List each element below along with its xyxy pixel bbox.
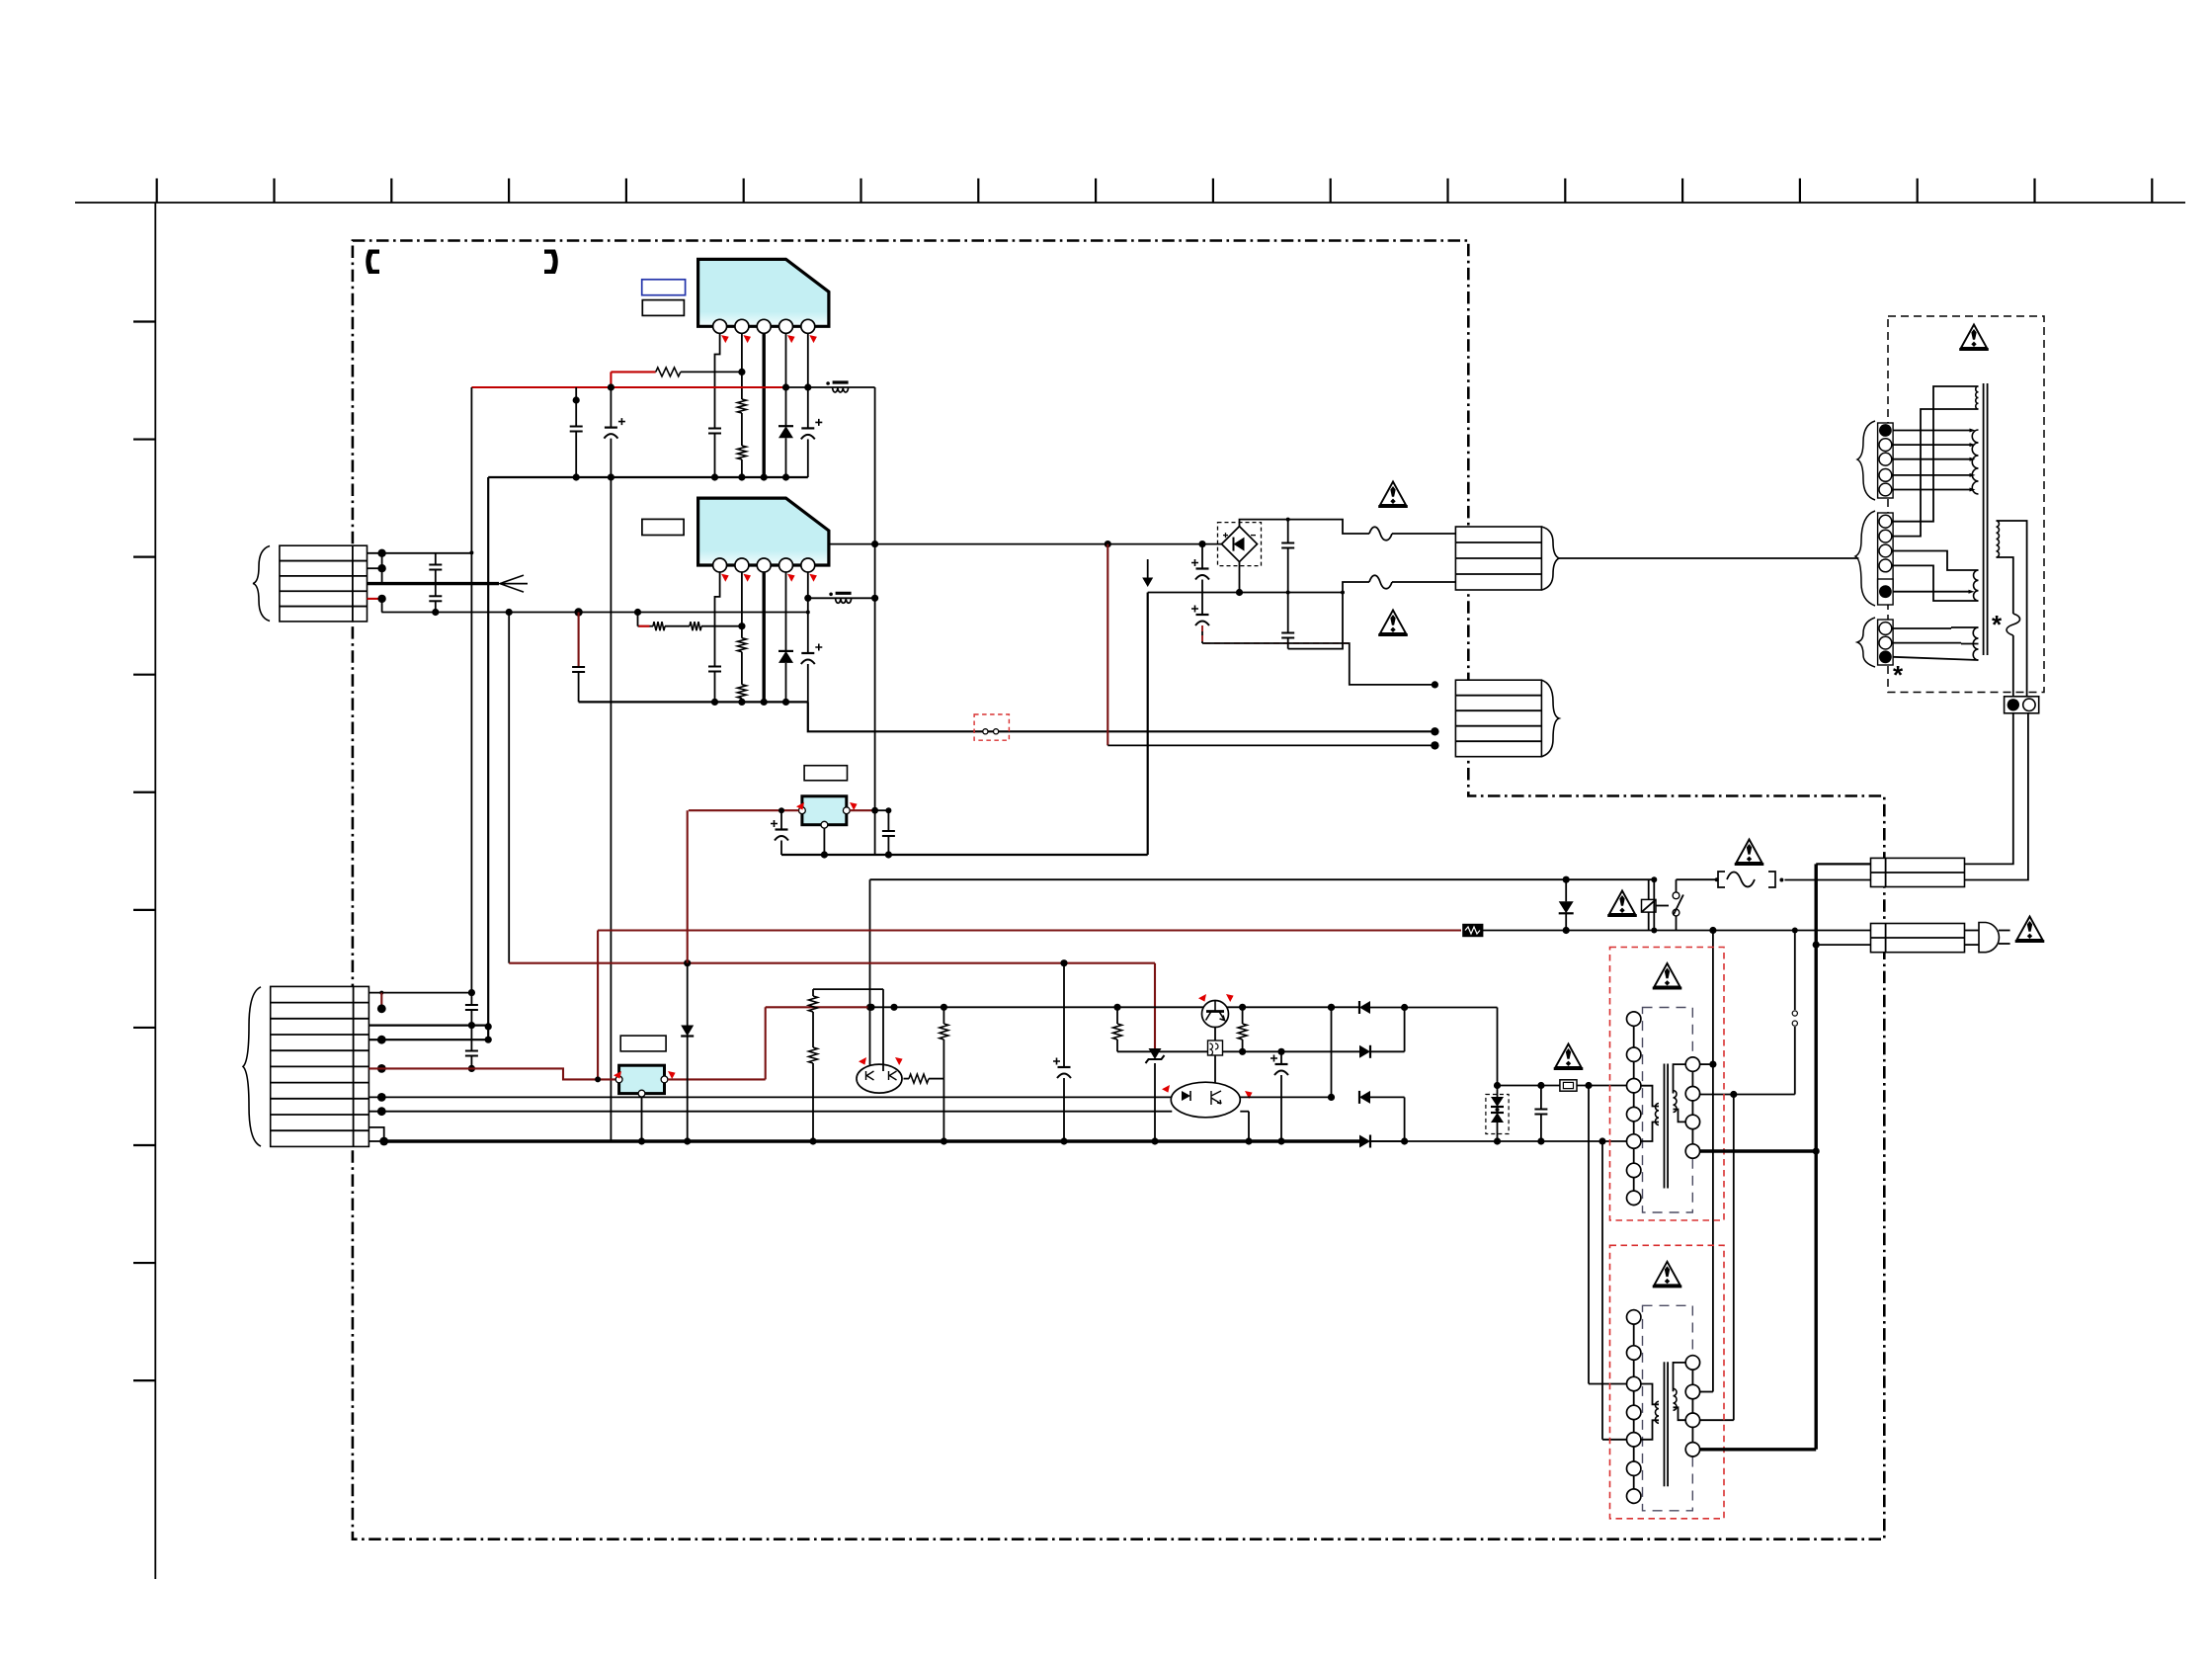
CN2 row4 wire thick bbox=[369, 1039, 488, 1040]
wire IC2 pin4 down bbox=[785, 572, 787, 651]
rail IC2 to bead bbox=[808, 597, 875, 599]
capacitor C8 bbox=[465, 1004, 478, 1006]
wire gnd to T1 pin5 bbox=[1369, 1140, 1627, 1142]
winding W5 mains bbox=[1997, 521, 2000, 557]
arrow signal left bbox=[500, 575, 524, 592]
wire arrow down marker bbox=[1147, 559, 1149, 579]
wire IC1 pin5 down bbox=[807, 333, 809, 428]
wire opto collector bbox=[1240, 1096, 1331, 1098]
wire W2 maroon bbox=[1106, 544, 1108, 746]
wire C5 to bus2 bbox=[714, 672, 716, 703]
bridge rectifier dashed box bbox=[1218, 523, 1262, 566]
wire rect out bbox=[1497, 1008, 1499, 1086]
resistor R2b bbox=[737, 446, 746, 459]
dual diode DD1 bbox=[1486, 1095, 1509, 1134]
rail PSU bbox=[766, 1006, 871, 1008]
resistor R5 bbox=[1242, 1007, 1244, 1024]
diode D6 bbox=[1359, 1045, 1370, 1058]
wire fuse to cordA bbox=[1784, 879, 1870, 881]
ground bus IC2 bbox=[579, 701, 808, 703]
wire T1 pin2 out bbox=[1699, 1093, 1701, 1096]
wire IC2 pin3 ground bbox=[763, 572, 766, 702]
connector TP plug bbox=[2005, 697, 2039, 713]
capacitor C16 electrolytic bbox=[780, 810, 782, 829]
bracket label left bbox=[366, 250, 379, 275]
resistor R3 bbox=[942, 1007, 944, 1024]
ground bus IC1 bbox=[488, 476, 808, 478]
optocoupler PC1 bbox=[1171, 1082, 1240, 1118]
transformer box dashed bbox=[1888, 316, 2044, 693]
maroon riser x605 bbox=[597, 931, 599, 1080]
capacitor C9 bbox=[465, 1050, 478, 1052]
inductor L1 bbox=[1214, 1028, 1216, 1041]
wire opto emitter bbox=[1240, 1111, 1249, 1113]
transformer T2 switching bbox=[1610, 1245, 1725, 1519]
thermal fuse TF bbox=[2007, 614, 2020, 635]
cord bushing B bbox=[1871, 924, 1965, 953]
resistor R7 bbox=[809, 1047, 818, 1063]
winding W3 bbox=[1974, 570, 1979, 601]
fusible resistor FR2 bbox=[1560, 1080, 1577, 1091]
wire IC1 pin2 down bbox=[741, 333, 743, 399]
resistor R2c bbox=[737, 638, 746, 652]
fusible resistor FR1 bbox=[598, 929, 1461, 931]
connector CN1 speaker bbox=[280, 545, 368, 622]
ruler vertical line bbox=[154, 203, 156, 1579]
IC3 ground lead bbox=[823, 828, 825, 855]
wire x1161 down thick bbox=[1147, 593, 1149, 856]
wire C1 to bus bbox=[714, 434, 716, 478]
wire D5-D7 join bbox=[1328, 1004, 1335, 1011]
wire maroon drop to C7 bbox=[578, 613, 580, 668]
connector TC3 bbox=[1878, 620, 1894, 665]
resistor R2a bbox=[737, 399, 746, 413]
CN1 pin3 wire thick bbox=[368, 582, 500, 585]
capacitor C14 electrolytic bbox=[1196, 614, 1209, 616]
wire vertical x885 bbox=[874, 387, 876, 855]
capacitor C17 bbox=[887, 810, 889, 831]
wire IC1 pin4 down bbox=[785, 333, 787, 426]
relay coil bbox=[1642, 899, 1657, 912]
mains line thick bbox=[1814, 864, 1817, 1449]
capacitor C15 chain bbox=[1063, 963, 1065, 1067]
label box IC1 black bbox=[642, 300, 684, 316]
wire T1 pin4 thick bbox=[1700, 1149, 1817, 1152]
wire FR2 to T1 bbox=[1577, 1085, 1627, 1087]
bracket label right bbox=[544, 250, 558, 275]
wire vertical x477 bbox=[470, 387, 472, 1005]
diode D5 bbox=[1359, 1001, 1370, 1014]
wire riser x618 red bbox=[610, 372, 612, 387]
wire Q1 right link bbox=[909, 1074, 929, 1083]
resistor R1f bbox=[656, 368, 681, 376]
diode D2 bbox=[778, 650, 793, 652]
TC2 pins bbox=[1879, 515, 1892, 528]
bridge rectifier D100 bbox=[1222, 527, 1258, 562]
capacitor C4 electrolytic on x618 bbox=[605, 427, 617, 429]
label box IC2 bbox=[642, 519, 684, 535]
wire R2d to bus2 bbox=[741, 699, 743, 703]
wire R2a to R2b bbox=[741, 413, 743, 446]
wire D7-D8 join bbox=[1404, 1097, 1406, 1141]
winding W4 bbox=[1973, 627, 1978, 660]
regulator IC4 bbox=[619, 1065, 665, 1093]
wire IC2 pin1 to C5 bbox=[715, 572, 720, 667]
wire bridge bottom bbox=[1239, 562, 1241, 593]
ground bus GNDP bbox=[379, 1137, 388, 1146]
ac plug bbox=[1979, 923, 1999, 953]
wire cordA to mains bbox=[1816, 863, 1870, 865]
CN2 row3 wire thick bbox=[369, 1024, 488, 1026]
wire fuse2 to CN3 bbox=[1392, 581, 1455, 583]
ruler left tick marks bbox=[133, 320, 155, 322]
wire C2 to bus bbox=[807, 439, 809, 477]
maroon2 wire bbox=[509, 962, 1155, 964]
wire T2 pin4 thick bbox=[1700, 1448, 1817, 1451]
wire W3 top lead bbox=[1893, 551, 1979, 571]
wire D5-D6 join bbox=[1404, 1008, 1406, 1052]
diode D4 chain bbox=[687, 810, 689, 963]
wire bridge top bbox=[1240, 520, 1370, 534]
ferrite bead FB2 bbox=[836, 598, 852, 603]
wire drive to T2 bbox=[1588, 1086, 1590, 1384]
transistor Q1 dual bbox=[857, 1064, 902, 1093]
CN2 row6 wire bbox=[377, 1093, 386, 1102]
wire jog feed bbox=[637, 613, 639, 626]
brace TC3 bbox=[1857, 618, 1875, 667]
wire switch to fuse bbox=[1677, 878, 1717, 880]
connector CN2 bbox=[271, 986, 369, 1146]
capacitor C11 bbox=[429, 595, 442, 597]
CN1 pin1 wire bbox=[368, 552, 472, 554]
capacitor C13 electrolytic bbox=[1201, 544, 1203, 569]
warning triangle bridge lower bbox=[1380, 611, 1406, 634]
resistor R2f bbox=[690, 622, 701, 630]
wire Q1 bias bbox=[813, 988, 883, 990]
ground return thick bbox=[781, 854, 1148, 856]
CN2 row1 wire bbox=[369, 992, 471, 994]
transformer core bbox=[1983, 383, 1985, 655]
wire drive node bbox=[1498, 1085, 1560, 1087]
wire T2 pin2 feed bbox=[1733, 1095, 1735, 1421]
wire between feed resistors bbox=[665, 625, 690, 627]
wire vertical x515 bbox=[508, 613, 510, 963]
wire lower to fuse2 bbox=[1148, 582, 1369, 593]
brace CN3 bbox=[1541, 527, 1559, 590]
wire W3 bottom lead bbox=[1893, 565, 1979, 601]
wire W1 bottom lead bbox=[1893, 409, 1979, 537]
regulator IC3 bbox=[802, 796, 847, 825]
TC3 pins bbox=[1879, 623, 1892, 635]
wire TP to cord A bbox=[1965, 712, 2013, 864]
wires TC3 to W4 bbox=[1893, 627, 1951, 629]
capacitor C5 bbox=[708, 666, 721, 668]
cord bushing A bbox=[1871, 858, 1965, 886]
wire x477 mid bbox=[470, 1010, 472, 1051]
resistor R2e bbox=[653, 622, 665, 630]
capacitor C6 electrolytic bbox=[801, 652, 814, 654]
wire W5 bottom lead bbox=[1997, 557, 2013, 614]
wire C7 to bus2 bbox=[578, 672, 580, 702]
wire R2c to R2d bbox=[741, 652, 743, 685]
label box IC1 blue bbox=[642, 280, 686, 295]
IC3 arrows bbox=[796, 802, 804, 810]
wire C4 down long bbox=[610, 439, 612, 1141]
capacitor C19 bbox=[1540, 1086, 1542, 1110]
fuse F901 bbox=[1718, 872, 1725, 887]
wire CN3 to transformer bbox=[1559, 557, 1858, 559]
CN1 pin2 dot bbox=[377, 564, 385, 572]
label box IC4 bbox=[620, 1036, 666, 1051]
wires TC1 to W2 taps bbox=[1893, 430, 1972, 432]
svg-text:*: * bbox=[1992, 610, 2003, 639]
winding W2 secondary bbox=[1972, 430, 1978, 494]
wire x618 rail to C4 bbox=[610, 387, 612, 428]
ruler top tick marks bbox=[156, 179, 158, 204]
warning triangle plug bbox=[2017, 917, 2043, 941]
brace TC2 bbox=[1855, 511, 1875, 606]
CN2 row1-2 red link bbox=[380, 993, 382, 1009]
fuse F1 bbox=[1369, 527, 1392, 541]
wire TC2 pin5 lead bbox=[1893, 591, 1971, 593]
signal wire A from connector bbox=[381, 612, 808, 614]
IC4 arrows bbox=[614, 1071, 621, 1079]
wire W5 top lead bbox=[1997, 521, 2027, 698]
diode D1 bbox=[778, 425, 793, 427]
wire W1 top lead bbox=[1893, 386, 1979, 522]
warning triangle relay bbox=[1609, 891, 1635, 915]
CN1 pin1-pin2 link bbox=[381, 553, 383, 568]
power switch S1 bbox=[1673, 892, 1679, 899]
jumper JW dashed box bbox=[974, 714, 1009, 740]
CN2 row7 wire bbox=[377, 1107, 386, 1116]
wire d2 line bbox=[1117, 1050, 1359, 1052]
brace CN2 bbox=[243, 987, 261, 1146]
wire T1 pin1 feed bbox=[1700, 1063, 1713, 1065]
IC3 output bbox=[850, 809, 874, 811]
wire relay feed down bbox=[869, 879, 871, 1071]
wire fuse1 to CN3 bbox=[1392, 533, 1455, 535]
wire D1 to bus bbox=[785, 438, 787, 477]
connector CN4 bbox=[1455, 680, 1541, 757]
wire feed red IC1 bbox=[611, 371, 655, 373]
wire C3 to bus bbox=[575, 432, 577, 478]
wire IC1 pin3 ground bbox=[763, 333, 766, 477]
wire rail black to bead bbox=[786, 386, 875, 388]
warning triangle bridge upper bbox=[1380, 482, 1406, 506]
wire gnd to T2 pin5 bbox=[1601, 1141, 1603, 1440]
IC4 output bbox=[668, 1078, 688, 1080]
wire C12 bottom link bbox=[1288, 593, 1343, 649]
diode D3 bbox=[1565, 879, 1567, 901]
warning triangle fuse bbox=[1737, 840, 1762, 864]
svg-text:*: * bbox=[1893, 660, 1904, 690]
wire switch bottom run bbox=[1654, 930, 1795, 932]
connector TC1 bbox=[1878, 423, 1894, 498]
wire R1f to pin2 bbox=[681, 371, 742, 373]
brace TC1 bbox=[1857, 421, 1875, 500]
wire feed IC2 bbox=[638, 625, 654, 627]
wire interlock bbox=[1794, 931, 1796, 1011]
ferrite bead FB1 bbox=[833, 387, 849, 392]
ruler horizontal line bbox=[75, 202, 2185, 204]
warning triangle drive bbox=[1556, 1044, 1582, 1068]
wire R2b to bus bbox=[741, 459, 743, 477]
CN2 row8 jog bbox=[369, 1127, 383, 1141]
capacitor C12 chain bbox=[1287, 520, 1289, 543]
wire vertical x494 thick bbox=[487, 477, 489, 1042]
wire D2 to bus2 bbox=[785, 663, 787, 703]
node cap branch x583 bbox=[575, 387, 577, 427]
wire IC1 pin1 to C1 bbox=[715, 333, 720, 428]
capacitor C3 bbox=[570, 426, 583, 428]
capacitor C1 bbox=[708, 428, 721, 430]
supply rail IC1 red bbox=[471, 386, 785, 388]
wire R2f to pin2 bbox=[701, 625, 742, 627]
CN2 row5 wire maroon bbox=[377, 1064, 386, 1073]
resistor R4 bbox=[1116, 1007, 1118, 1024]
wire relay right leg bbox=[1653, 879, 1655, 930]
brace CN4 bbox=[1541, 680, 1559, 757]
wire cordB rows bbox=[1795, 930, 1871, 932]
wire x477 end bbox=[470, 1056, 472, 1069]
connector CN3 bbox=[1455, 527, 1541, 590]
label box IC3 bbox=[804, 766, 847, 781]
wire IC2 pin2 down bbox=[741, 572, 743, 638]
TC1 pins bbox=[1879, 424, 1892, 437]
fuse F2 bbox=[1369, 575, 1392, 589]
jumper JW contacts bbox=[983, 729, 988, 734]
resistor R2d bbox=[737, 685, 746, 699]
capacitor C10 bbox=[429, 564, 442, 566]
capacitor C18 electrolytic bbox=[1280, 1051, 1282, 1064]
wire IC2 to bridge bbox=[829, 543, 1222, 545]
resistor R6 bbox=[812, 989, 814, 996]
capacitor C2 electrolytic bbox=[801, 427, 814, 429]
connector TC2 bbox=[1878, 513, 1894, 588]
wire red dashed link bbox=[1202, 625, 1350, 643]
capacitor C7 bbox=[572, 666, 585, 668]
wire W1 ground return bbox=[808, 702, 1435, 731]
transformer T1 switching bbox=[1610, 948, 1725, 1221]
wire relay top bbox=[870, 878, 1655, 880]
warning triangle transformer bbox=[1961, 325, 1987, 349]
board outline dash-dot border bbox=[353, 241, 1884, 1539]
wire relay link bbox=[1648, 879, 1650, 899]
IC4 ground lead bbox=[641, 1097, 643, 1141]
IC3 input maroon bbox=[689, 809, 799, 811]
wire IC2 pin5 down bbox=[807, 572, 809, 653]
diode D8 bbox=[1359, 1135, 1370, 1148]
winding W1 primary top bbox=[1976, 386, 1979, 409]
diode D7 bbox=[1359, 1091, 1370, 1104]
zener ZD1 bbox=[1154, 963, 1156, 1048]
transistor Q2 bbox=[1202, 1001, 1229, 1028]
CN1 pin4 red stub bbox=[368, 598, 382, 600]
wire C6 to bus2 bbox=[807, 664, 809, 702]
